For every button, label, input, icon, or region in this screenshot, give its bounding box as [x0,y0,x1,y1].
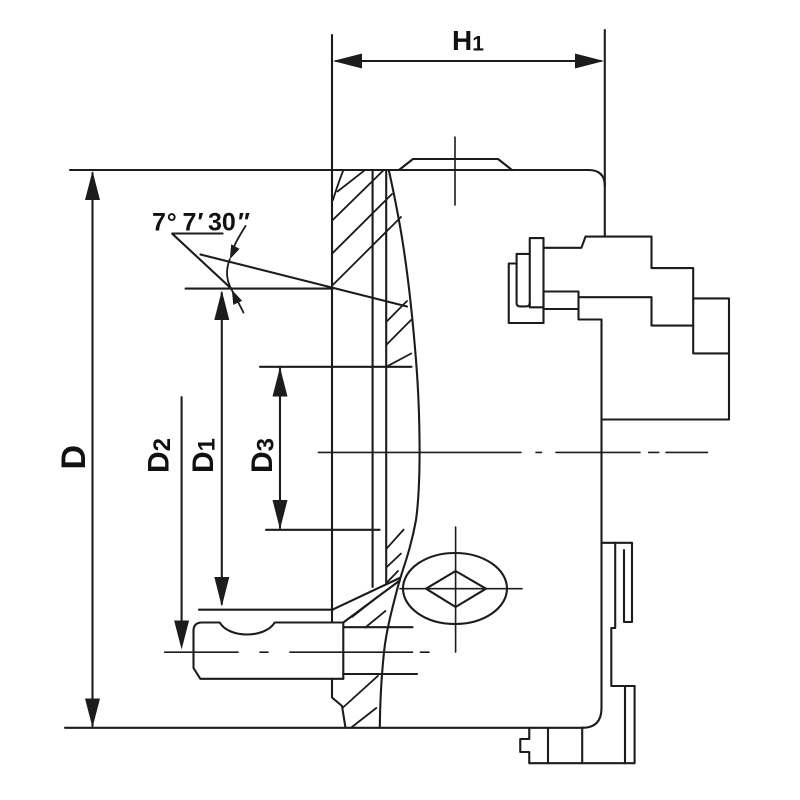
wire angle label underline [172,232,222,234]
svg-text:D: D [55,445,93,470]
wire hatch lower column a [386,530,403,549]
wire D1 bottom extension line [199,609,333,611]
wire angle dimension arc [227,259,243,312]
node angle arrowhead upper [230,244,240,259]
wire D3 top extension line [260,366,412,368]
wire D1 dimension line [221,293,223,604]
wire hatch mid column c [386,354,411,367]
node pinion ellipse [403,553,507,624]
wire top bolt center mark [454,137,456,205]
wire lower guideway strip inner [611,543,634,686]
node pinion square socket [426,571,486,607]
wire pinion center mark horizontal [400,588,522,590]
wire body bottom edge with D extension [65,727,583,729]
wire hatch cone b [365,611,385,628]
wire cone line S2 [343,581,400,623]
wire jaw inner step line 2 [693,298,729,353]
wire jaw inner step line 1 [579,297,694,325]
wire body left edge with H1 extension [331,35,333,623]
wire taper extension line B [186,288,333,290]
wire wall inner vertical 1 [372,170,374,587]
wire hatch bottom wall b [351,708,376,728]
wire lower strip vertical a [624,686,626,763]
wire boss right vertical [342,623,344,679]
wire body face lower with corner [583,320,602,728]
wire D dimension line [91,173,93,726]
wire bottom block inner vertical a [547,728,549,763]
wire main center line [318,451,707,453]
wire body face upper [604,186,606,237]
node jaw screw block [544,292,579,310]
wire boss center line [165,651,429,653]
wire master jaw tab R3 [509,264,544,324]
wire body top edge with D extension [70,170,605,186]
wire hatch cone a [352,597,378,618]
wire H1 right extension line [604,30,606,186]
wire body left edge below boss [332,679,346,728]
wire D2 dimension line [181,397,183,622]
node D3 bottom arrowhead [273,500,288,529]
wire D3 bottom extension line [266,529,380,531]
wire bottom block outline [520,728,634,763]
svg-text:7°7′30″: 7°7′30″ [152,209,250,237]
node angle arrowhead lower [232,290,242,305]
node D bottom arrowhead [85,699,100,728]
wire pinion center mark vertical [455,527,457,652]
wire bottom block inner vertical b [581,728,583,764]
wire cone line S1 [333,578,400,609]
node D1 top arrowhead [214,291,229,321]
wire lower strip vertical b [634,686,636,763]
wire master jaw tab R1 [530,238,544,323]
wire bore bottom line [343,673,417,675]
wire hatch upper wall c [332,194,392,254]
wire wall inner vertical 2 [385,170,387,584]
node H1 left arrowhead [333,54,362,69]
wire hatch bottom wall a [343,676,378,708]
wire hatch mid column a [386,301,407,322]
wire angle right leader curve [234,226,246,248]
wire hatch upper wall d [332,217,401,286]
wire hatch lower column b [386,554,401,568]
wire bore top line [343,626,412,628]
node D3 top arrowhead [273,367,288,396]
node D top arrowhead [85,171,100,200]
wire taper line A [201,255,408,307]
wire cavity curve [380,171,420,728]
wire master jaw tab R2 [517,254,530,307]
node D1 bottom arrowhead [214,577,229,607]
wire top jaw outline [544,237,729,420]
node top trapezoid lug [399,159,512,170]
wire boss outline [194,623,344,679]
wire wall top-left fillet [333,171,343,200]
wire angle left leader [172,234,231,289]
wire hatch upper wall a [338,171,365,192]
wire hatch upper wall b [332,171,383,221]
wire D3 dimension line [279,368,281,528]
node H1 right arrowhead [575,54,604,69]
node D2 arrowhead [174,621,189,650]
wire jaw step to face [579,309,602,320]
wire hatch lower column c [386,571,398,583]
wire H1 dimension line [336,60,601,62]
wire hatch mid column b [386,320,411,345]
wire lower guideway strip outer [603,543,633,622]
